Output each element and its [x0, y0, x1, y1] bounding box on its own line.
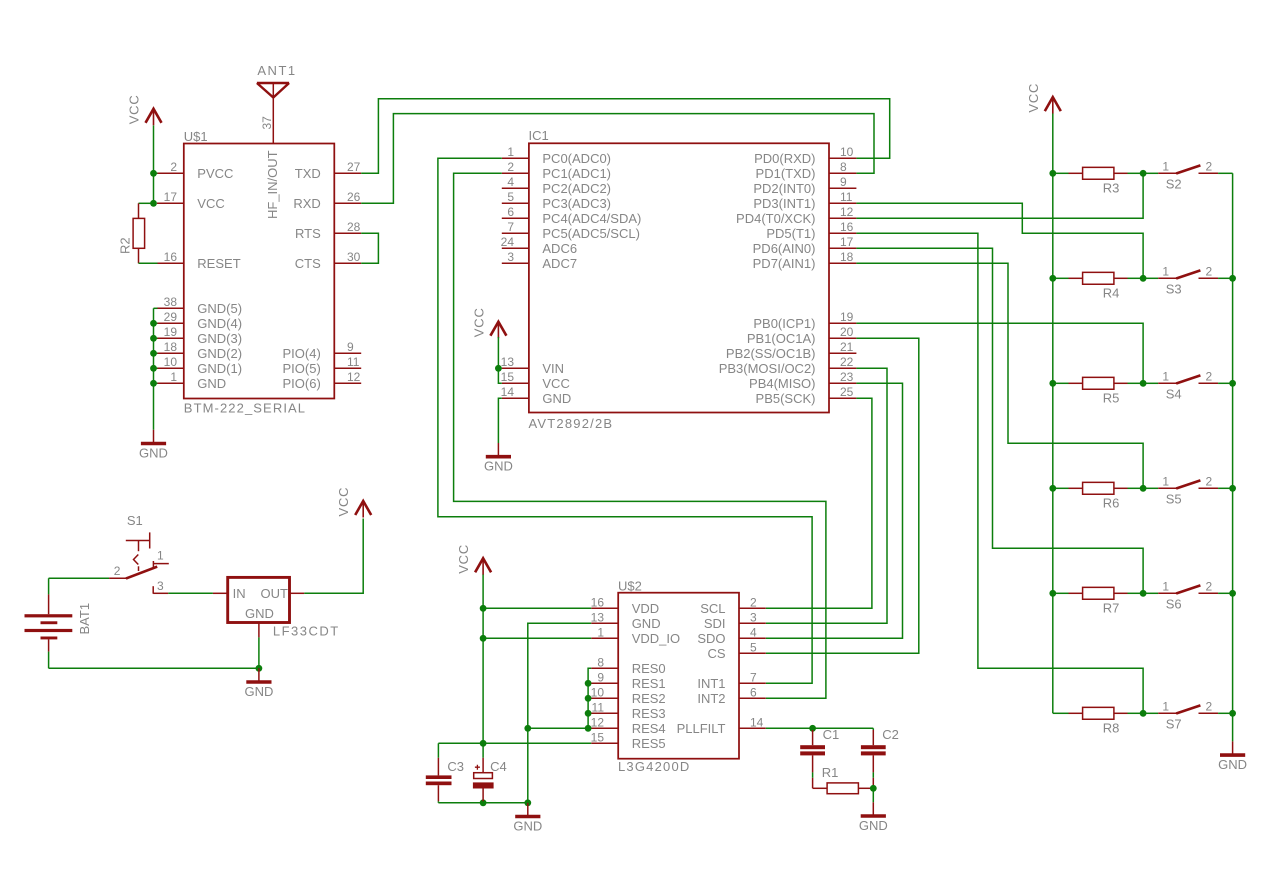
- svg-text:GND(4): GND(4): [197, 316, 242, 331]
- IC1 pin 5 PC3(ADC3): [502, 190, 611, 211]
- U$1 pin 37 HF_IN/OUT: [260, 98, 280, 220]
- svg-text:R5: R5: [1103, 391, 1120, 406]
- svg-text:VDD: VDD: [632, 601, 659, 616]
- svg-text:OUT: OUT: [261, 586, 289, 601]
- wire gnd pin stub join: [154, 367, 158, 369]
- switch S6: [1143, 579, 1233, 611]
- svg-text:28: 28: [347, 220, 361, 234]
- svg-text:2: 2: [170, 160, 177, 174]
- svg-text:PB5(SCK): PB5(SCK): [756, 391, 816, 406]
- svg-text:C3: C3: [447, 759, 464, 774]
- svg-text:8: 8: [597, 655, 604, 669]
- svg-text:PC4(ADC4/SDA): PC4(ADC4/SDA): [542, 211, 641, 226]
- svg-text:R6: R6: [1103, 496, 1120, 511]
- IC1 pin 19 PB0(ICP1): [753, 310, 856, 331]
- IC1 pin 8 PD1(TXD): [756, 160, 857, 181]
- svg-text:RES0: RES0: [632, 661, 666, 676]
- wire net PD4 to R3 node: [856, 173, 1143, 218]
- svg-text:15: 15: [591, 730, 605, 744]
- junction gnd rail: [1229, 485, 1236, 492]
- svg-text:10: 10: [591, 685, 605, 699]
- wire net PD3 to R4 node: [856, 203, 1143, 278]
- svg-text:S1: S1: [127, 513, 143, 528]
- svg-text:1: 1: [1162, 579, 1169, 593]
- junction R7/S6: [1140, 590, 1147, 597]
- U$2 pin 13 GND: [591, 610, 661, 631]
- svg-text:VCC: VCC: [1026, 83, 1041, 113]
- svg-text:C2: C2: [882, 727, 899, 742]
- svg-text:RES1: RES1: [632, 676, 666, 691]
- svg-text:PLLFILT: PLLFILT: [677, 721, 726, 736]
- junction VCC/pin17: [150, 200, 157, 207]
- svg-text:PB3(MOSI/OC2): PB3(MOSI/OC2): [719, 361, 816, 376]
- wire to gnd: [872, 788, 874, 802]
- svg-text:S5: S5: [1166, 492, 1182, 507]
- svg-text:38: 38: [164, 295, 178, 309]
- svg-text:PC2(ADC2): PC2(ADC2): [542, 181, 611, 196]
- power symbol VCC (U$1): [127, 94, 162, 125]
- svg-text:PB0(ICP1): PB0(ICP1): [753, 316, 815, 331]
- power symbol VCC (U$2): [456, 544, 491, 575]
- resistor R4: [1053, 272, 1143, 300]
- svg-text:6: 6: [750, 685, 757, 699]
- svg-text:21: 21: [840, 340, 854, 354]
- ground symbol GND (U$2): [513, 803, 542, 834]
- IC1 pin 2 PC1(ADC1): [502, 160, 611, 181]
- wire IC1 GND: [498, 398, 501, 443]
- svg-text:GND(3): GND(3): [197, 331, 242, 346]
- svg-text:ANT1: ANT1: [257, 63, 296, 78]
- battery BAT1: [25, 578, 93, 668]
- svg-text:1: 1: [1162, 369, 1169, 383]
- svg-text:GND: GND: [632, 616, 661, 631]
- svg-text:RES2: RES2: [632, 691, 666, 706]
- svg-text:1: 1: [157, 548, 164, 562]
- junction gnd rail: [1229, 275, 1236, 282]
- svg-text:8: 8: [840, 160, 847, 174]
- U$1 pin 1 GND: [157, 370, 226, 391]
- svg-text:1: 1: [597, 625, 604, 639]
- svg-text:GND: GND: [484, 459, 513, 474]
- svg-text:VDD_IO: VDD_IO: [632, 631, 680, 646]
- svg-text:2: 2: [114, 564, 121, 578]
- svg-text:14: 14: [750, 715, 764, 729]
- wire bottom gnd: [438, 802, 527, 804]
- svg-text:12: 12: [347, 370, 361, 384]
- svg-text:PD0(RXD): PD0(RXD): [754, 151, 815, 166]
- wire net PD7 to R6 node: [856, 263, 1143, 488]
- wire net PB0 to R5 node: [856, 323, 1143, 383]
- svg-text:VCC: VCC: [127, 94, 142, 124]
- svg-text:RESET: RESET: [197, 256, 240, 271]
- wire VCC to VDD: [483, 607, 591, 609]
- IC1 pin 9 PD2(INT0): [753, 175, 856, 196]
- svg-text:IN: IN: [233, 586, 246, 601]
- junction C1 top: [809, 725, 816, 732]
- svg-text:PD1(TXD): PD1(TXD): [756, 166, 816, 181]
- svg-text:19: 19: [164, 325, 178, 339]
- U$1 pin 30 CTS: [295, 250, 361, 271]
- svg-text:CTS: CTS: [295, 256, 321, 271]
- svg-text:PC1(ADC1): PC1(ADC1): [542, 166, 611, 181]
- U$2 pin 4 SDO: [697, 625, 765, 646]
- svg-text:4: 4: [750, 625, 757, 639]
- U$1 pin 38 GND(5): [157, 295, 242, 316]
- wire BAT1- to gnd node: [49, 667, 259, 669]
- U$2 pin 8 RES0: [591, 655, 665, 676]
- svg-text:3: 3: [157, 579, 164, 593]
- junction C4 bottom: [480, 799, 487, 806]
- junction gnd: [524, 799, 531, 806]
- svg-text:13: 13: [501, 355, 515, 369]
- IC1 pin 12 PD4(T0/XCK): [736, 205, 856, 226]
- wire net PB3-SDI: [766, 368, 887, 623]
- svg-text:5: 5: [507, 190, 514, 204]
- svg-text:AVT2892/2B: AVT2892/2B: [529, 416, 614, 431]
- svg-text:18: 18: [164, 340, 178, 354]
- svg-text:PD4(T0/XCK): PD4(T0/XCK): [736, 211, 815, 226]
- wire to VIN: [498, 367, 501, 369]
- junction VDD: [480, 605, 487, 612]
- ground symbol GND (U$1): [139, 430, 168, 461]
- wire OUT to VCC: [304, 519, 363, 594]
- svg-text:VCC: VCC: [542, 376, 569, 391]
- resistor R1: [813, 765, 874, 794]
- ground symbol GND (IC1): [484, 443, 513, 474]
- junction VCC rail: [1049, 380, 1056, 387]
- svg-text:VCC: VCC: [456, 544, 471, 574]
- svg-text:5: 5: [750, 640, 757, 654]
- svg-text:S3: S3: [1166, 282, 1182, 297]
- svg-text:C4: C4: [490, 759, 507, 774]
- switch S1: [109, 513, 169, 594]
- junction gnd rail: [1229, 590, 1236, 597]
- wire net PD5 to R8 node: [856, 233, 1143, 713]
- svg-text:C1: C1: [823, 727, 840, 742]
- wire LF33 GND down: [258, 637, 260, 668]
- IC U$1 BTM-222_SERIAL outline: [184, 144, 334, 399]
- wire U$2 GND net: [528, 623, 591, 803]
- svg-text:GND: GND: [139, 445, 168, 460]
- U$2 pin 7 INT1: [697, 670, 765, 691]
- svg-text:RTS: RTS: [295, 226, 321, 241]
- IC1 pin 22 PB3(MOSI/OC2): [719, 355, 857, 376]
- svg-text:CS: CS: [707, 646, 725, 661]
- wire VCC rail right: [1052, 114, 1054, 714]
- U$1 pin 27 TXD: [295, 160, 361, 181]
- IC1 pin 1 PC0(ADC0): [502, 145, 611, 166]
- power symbol VCC (IC1): [471, 307, 506, 338]
- U$1 pin 9 PIO(4): [283, 340, 362, 361]
- U$1 pin 16 RESET: [157, 250, 241, 271]
- ground symbol GND (R1/C2): [859, 802, 888, 833]
- wire net PB1-CS: [766, 338, 919, 653]
- IC1 pin 13 VIN: [501, 355, 564, 376]
- IC1 pin 23 PB4(MISO): [749, 370, 856, 391]
- svg-text:GND(1): GND(1): [197, 361, 242, 376]
- U$2 pin 3 SDI: [704, 610, 766, 631]
- svg-text:PC5(ADC5/SCL): PC5(ADC5/SCL): [542, 226, 640, 241]
- wire gnd pin stub join: [154, 382, 158, 384]
- IC1 pin 21 PB2(SS/OC1B): [726, 340, 856, 361]
- svg-text:VIN: VIN: [542, 361, 564, 376]
- svg-text:GND: GND: [197, 376, 226, 391]
- IC1 pin 20 PB1(OC1A): [747, 325, 857, 346]
- IC1 pin 7 PC5(ADC5/SCL): [502, 220, 640, 241]
- switch S7: [1143, 699, 1233, 731]
- svg-text:BAT1: BAT1: [77, 603, 92, 635]
- wire net RXD-PD1: [361, 114, 874, 204]
- junction gnd rail: [1229, 380, 1236, 387]
- svg-text:INT1: INT1: [697, 676, 725, 691]
- svg-text:12: 12: [591, 715, 605, 729]
- svg-text:U$2: U$2: [618, 578, 642, 593]
- junction R8/S7: [1140, 710, 1147, 717]
- junction gnd rail: [150, 365, 157, 372]
- svg-text:2: 2: [750, 595, 757, 609]
- svg-text:4: 4: [507, 175, 514, 189]
- svg-text:15: 15: [501, 370, 515, 384]
- U$1 pin 19 GND(3): [157, 325, 242, 346]
- svg-text:RES3: RES3: [632, 706, 666, 721]
- svg-text:ADC7: ADC7: [542, 256, 577, 271]
- wire RES0-RES4 tie: [528, 668, 591, 728]
- wire PLLFILT: [766, 727, 874, 729]
- svg-text:37: 37: [260, 116, 274, 130]
- U$1 pin 29 GND(4): [157, 310, 242, 331]
- junction gnd node: [256, 665, 263, 672]
- svg-text:1: 1: [507, 145, 514, 159]
- svg-text:9: 9: [840, 175, 847, 189]
- svg-text:2: 2: [1206, 369, 1213, 383]
- svg-text:RES5: RES5: [632, 736, 666, 751]
- svg-text:SDI: SDI: [704, 616, 726, 631]
- U$1 pin 18 GND(2): [157, 340, 242, 361]
- svg-text:16: 16: [840, 220, 854, 234]
- junction RES4/GND: [524, 725, 531, 732]
- svg-text:22: 22: [840, 355, 854, 369]
- junction RES3: [585, 710, 592, 717]
- IC U$2 L3G4200D outline: [618, 593, 739, 759]
- svg-text:PD7(AIN1): PD7(AIN1): [753, 256, 816, 271]
- switch S4: [1143, 369, 1233, 401]
- svg-text:16: 16: [591, 595, 605, 609]
- svg-text:14: 14: [501, 385, 515, 399]
- svg-text:PB1(OC1A): PB1(OC1A): [747, 331, 816, 346]
- svg-text:SDO: SDO: [697, 631, 725, 646]
- U$2 pin 6 INT2: [697, 685, 765, 706]
- junction VCC/PVCC: [150, 170, 157, 177]
- svg-text:VCC: VCC: [197, 196, 224, 211]
- wire S1 to IN: [168, 592, 213, 594]
- svg-text:GND: GND: [245, 606, 274, 621]
- svg-text:GND: GND: [1218, 757, 1247, 772]
- junction VCC rail: [1049, 590, 1056, 597]
- wire gnd pin stub join: [154, 322, 158, 324]
- IC1 pin 6 PC4(ADC4/SDA): [502, 205, 642, 226]
- junction VDD_IO: [480, 635, 487, 642]
- svg-text:11: 11: [592, 700, 605, 714]
- svg-text:HF_IN/OUT: HF_IN/OUT: [265, 150, 280, 219]
- svg-text:PD3(INT1): PD3(INT1): [753, 196, 815, 211]
- wire net RTS-CTS: [361, 233, 378, 263]
- svg-text:9: 9: [347, 340, 354, 354]
- switch S3: [1143, 264, 1233, 296]
- IC1 pin 4 PC2(ADC2): [502, 175, 611, 196]
- svg-text:PB2(SS/OC1B): PB2(SS/OC1B): [726, 346, 816, 361]
- wire net PB4-SDO: [766, 383, 903, 638]
- U$2 pin 10 RES2: [591, 685, 666, 706]
- svg-text:PB4(MISO): PB4(MISO): [749, 376, 815, 391]
- svg-text:1: 1: [1162, 264, 1169, 278]
- svg-text:25: 25: [840, 385, 854, 399]
- junction VCC/C4/RES5: [480, 740, 487, 747]
- capacitor C3: [426, 743, 464, 803]
- U$2 pin 2 SCL: [700, 595, 766, 616]
- junction VIN/VCC: [495, 365, 502, 372]
- junction VCC rail: [1049, 170, 1056, 177]
- junction gnd rail: [150, 380, 157, 387]
- wire net PC1-INT2: [454, 173, 826, 698]
- IC1 pin 18 PD7(AIN1): [753, 250, 857, 271]
- svg-text:10: 10: [164, 355, 178, 369]
- svg-text:PD6(AIN0): PD6(AIN0): [753, 241, 816, 256]
- U$2 pin 9 RES1: [591, 670, 665, 691]
- switch S2: [1143, 159, 1233, 191]
- svg-text:PD2(INT0): PD2(INT0): [753, 181, 815, 196]
- svg-text:U$1: U$1: [184, 129, 208, 144]
- resistor R2: [118, 203, 158, 263]
- IC1 pin 14 GND: [501, 385, 572, 406]
- wire net TXD-PD0: [361, 99, 890, 174]
- svg-text:RXD: RXD: [293, 196, 320, 211]
- svg-text:24: 24: [501, 235, 515, 249]
- svg-text:18: 18: [840, 250, 854, 264]
- svg-text:PC3(ADC3): PC3(ADC3): [542, 196, 611, 211]
- power symbol VCC (LF33CDT): [336, 487, 371, 518]
- svg-text:3: 3: [507, 250, 514, 264]
- svg-text:R3: R3: [1103, 181, 1120, 196]
- switch S5: [1143, 474, 1233, 506]
- U$1 pin 17 VCC: [157, 190, 225, 211]
- U$2 pin 15 RES5: [591, 730, 666, 751]
- svg-text:2: 2: [1206, 699, 1213, 713]
- U$1 pin 12 PIO(6): [283, 370, 362, 391]
- svg-text:INT2: INT2: [697, 691, 725, 706]
- svg-text:7: 7: [750, 670, 757, 684]
- resistor R6: [1053, 482, 1143, 510]
- svg-text:19: 19: [840, 310, 854, 324]
- svg-text:23: 23: [840, 370, 854, 384]
- U$2 pin 14 PLLFILT: [677, 715, 766, 736]
- IC1 pin 17 PD6(AIN0): [753, 235, 857, 256]
- IC1 pin 3 ADC7: [502, 250, 577, 271]
- U$1 pin 10 GND(1): [157, 355, 242, 376]
- wire U$1 GND rail: [153, 308, 155, 430]
- svg-text:GND(2): GND(2): [197, 346, 242, 361]
- wire net PB5-SCL: [766, 398, 872, 608]
- svg-text:GND: GND: [859, 818, 888, 833]
- U$2 pin 11 RES3: [591, 700, 665, 721]
- svg-text:16: 16: [164, 250, 178, 264]
- wire to pin 2: [154, 172, 158, 174]
- voltage regulator LF33CDT: [213, 577, 340, 638]
- svg-text:R7: R7: [1103, 601, 1120, 616]
- junction R5/S4: [1140, 380, 1147, 387]
- svg-text:11: 11: [347, 355, 360, 369]
- svg-text:VCC: VCC: [336, 487, 351, 517]
- power symbol VCC (right): [1026, 83, 1061, 114]
- svg-text:11: 11: [840, 190, 853, 204]
- svg-text:13: 13: [591, 610, 605, 624]
- wire gnd pin stub join: [154, 337, 158, 339]
- svg-text:S6: S6: [1166, 597, 1182, 612]
- capacitor C2: [861, 727, 899, 788]
- IC1 pin 10 PD0(RXD): [754, 145, 856, 166]
- svg-text:PIO(6): PIO(6): [283, 376, 321, 391]
- IC1 pin 15 VCC: [501, 370, 570, 391]
- junction RES1: [585, 680, 592, 687]
- svg-text:17: 17: [164, 190, 178, 204]
- IC1 pin 25 PB5(SCK): [756, 385, 857, 406]
- wire net PD6 to R7 node: [856, 248, 1143, 593]
- svg-text:17: 17: [840, 235, 854, 249]
- svg-text:12: 12: [840, 205, 854, 219]
- U$1 pin 11 PIO(5): [283, 355, 362, 376]
- IC1 pin 24 ADC6: [501, 235, 577, 256]
- svg-text:7: 7: [507, 220, 514, 234]
- svg-text:GND: GND: [244, 684, 273, 699]
- ground symbol GND (switches): [1218, 741, 1247, 772]
- U$1 pin 28 RTS: [295, 220, 361, 241]
- IC IC1 AVT2892/2B outline: [529, 143, 829, 412]
- svg-text:2: 2: [507, 160, 514, 174]
- svg-text:2: 2: [1206, 264, 1213, 278]
- svg-text:PIO(5): PIO(5): [283, 361, 321, 376]
- svg-text:20: 20: [840, 325, 854, 339]
- svg-text:2: 2: [1206, 159, 1213, 173]
- U$2 pin 1 VDD_IO: [591, 625, 680, 646]
- capacitor C4 (polarized): [473, 743, 507, 803]
- junction VCC rail: [1049, 485, 1056, 492]
- resistor R8: [1053, 707, 1143, 735]
- svg-text:GND: GND: [513, 818, 542, 833]
- wire VCC to VDD_IO: [483, 637, 591, 639]
- svg-text:GND(5): GND(5): [197, 301, 242, 316]
- svg-text:6: 6: [507, 205, 514, 219]
- U$1 pin 2 PVCC: [157, 160, 234, 181]
- junction R1/C2: [870, 785, 877, 792]
- svg-text:BTM-222_SERIAL: BTM-222_SERIAL: [184, 401, 306, 416]
- svg-text:TXD: TXD: [295, 166, 321, 181]
- svg-text:GND: GND: [542, 391, 571, 406]
- svg-text:27: 27: [347, 160, 361, 174]
- junction gnd rail: [1229, 710, 1236, 717]
- svg-text:1: 1: [1162, 699, 1169, 713]
- junction R4/S3: [1140, 275, 1147, 282]
- svg-text:PD5(T1): PD5(T1): [766, 226, 815, 241]
- antenna ANT1: [257, 63, 297, 98]
- svg-text:30: 30: [347, 250, 361, 264]
- U$2 pin 16 VDD: [591, 595, 660, 616]
- svg-text:IC1: IC1: [529, 128, 549, 143]
- wire right gnd rail: [1232, 173, 1234, 741]
- junction gnd rail: [150, 335, 157, 342]
- svg-text:1: 1: [170, 370, 177, 384]
- wire VCC/RES5 row: [438, 742, 591, 744]
- U$2 pin 5 CS: [707, 640, 765, 661]
- svg-text:ADC6: ADC6: [542, 241, 577, 256]
